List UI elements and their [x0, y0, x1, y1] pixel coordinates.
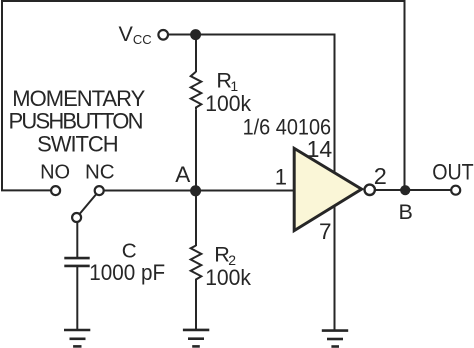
- svg-text:14: 14: [307, 136, 333, 162]
- switch arm (pole to NC): [77, 191, 100, 218]
- node B junction dot: [400, 185, 410, 195]
- svg-text:100k: 100k: [205, 265, 252, 290]
- ground symbol below inverter pin 7: [322, 331, 348, 347]
- switch NC contact circle: [95, 186, 104, 195]
- resistor R1: [191, 72, 202, 110]
- wire: inverter output to OUT terminal through node B: [375, 189, 451, 191]
- wire: R2 bottom to ground: [195, 282, 197, 329]
- svg-text:B: B: [399, 200, 413, 224]
- Vcc junction dot: [190, 29, 201, 40]
- svg-text:7: 7: [319, 219, 332, 244]
- wire: pin 14 supply drop into inverter top: [334, 34, 336, 177]
- OUT terminal circle: [451, 186, 460, 195]
- wire: capacitor C bottom to ground: [76, 266, 78, 329]
- ground symbol below R2: [183, 330, 209, 347]
- label MOMENTARY PUSHBUTTON SWITCH: [9, 86, 146, 156]
- inverter output bubble: [365, 185, 375, 195]
- capacitor C: [64, 258, 89, 266]
- svg-text:2: 2: [374, 163, 387, 189]
- svg-text:100k: 100k: [205, 91, 252, 116]
- svg-text:1: 1: [275, 164, 287, 189]
- svg-text:VCC: VCC: [119, 22, 152, 47]
- svg-text:MOMENTARY: MOMENTARY: [12, 86, 145, 111]
- node A junction dot: [190, 185, 201, 196]
- wire: Vcc rail from terminal to pin-14 corner: [168, 34, 335, 36]
- svg-text:R2: R2: [214, 241, 236, 268]
- svg-text:A: A: [175, 162, 190, 187]
- switch pole contact circle: [72, 213, 81, 222]
- wire: switch pole down to capacitor C top: [76, 221, 78, 257]
- svg-text:OUT: OUT: [432, 160, 474, 185]
- svg-text:1000 pF: 1000 pF: [89, 260, 165, 285]
- wire: switch NC contact to inverter input pin 1 through node A: [104, 190, 295, 192]
- svg-text:SWITCH: SWITCH: [37, 131, 118, 156]
- wire: node A down to R2 top: [195, 190, 197, 246]
- inverter U1 1/6 40106 (Schmitt trigger) triangle: [294, 148, 361, 230]
- svg-text:PUSHBUTTON: PUSHBUTTON: [9, 109, 144, 134]
- Vcc terminal circle: [158, 30, 168, 40]
- svg-text:NO: NO: [40, 162, 70, 184]
- wire: feedback loop from switch NO contact up the left edge, across the top, down to node B: [2, 1, 405, 190]
- wire: Vcc junction down to R1 top: [195, 35, 197, 73]
- wire: inverter pin 7 down to ground: [334, 200, 336, 330]
- ground symbol below capacitor C: [64, 330, 90, 346]
- svg-text:NC: NC: [85, 160, 115, 183]
- wire: R1 bottom to node A: [195, 110, 197, 190]
- switch NO contact circle: [51, 186, 60, 195]
- resistor R2: [191, 246, 202, 283]
